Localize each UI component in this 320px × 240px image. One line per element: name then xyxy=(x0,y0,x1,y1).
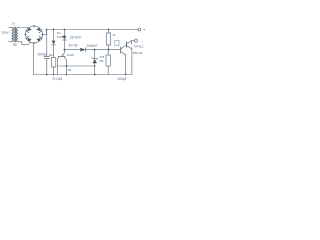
node bridge left xyxy=(25,34,27,36)
transistor Q3 collector lead xyxy=(64,57,66,75)
wire bridge right vertex to top rail xyxy=(43,30,47,35)
wire branch B to transistor Q3 xyxy=(64,50,66,53)
resistor R2 box xyxy=(106,33,110,45)
wire W1 mid horizontal xyxy=(65,49,121,51)
transformer core xyxy=(14,27,15,42)
svg-text:FB: FB xyxy=(99,59,103,63)
node zener top xyxy=(94,49,96,51)
node W2 zener junction xyxy=(94,65,96,67)
node bottom rail zener xyxy=(94,74,96,76)
resistor R1 lead xyxy=(53,45,55,58)
node bottom rail cap xyxy=(46,74,48,76)
capacitor C1 1000u lead top xyxy=(46,30,48,57)
svg-text:Tr: Tr xyxy=(12,22,16,26)
transistor Q1 emitter xyxy=(127,46,132,75)
wire bridge bottom to ground rail xyxy=(33,43,36,75)
bridge rectifier outline xyxy=(26,26,43,43)
wire secondary top to bridge xyxy=(18,27,29,29)
svg-text:BD139: BD139 xyxy=(133,51,143,55)
node W2 junction xyxy=(66,65,68,67)
wire primary top stub xyxy=(9,27,12,29)
node branch A top xyxy=(53,29,55,31)
transistor Q3 base bar xyxy=(58,55,65,57)
diode D7 bar xyxy=(85,48,87,52)
node bottom rail R1 xyxy=(53,74,55,76)
transistor Q2 base bar xyxy=(120,47,122,53)
svg-text:2k2: 2k2 xyxy=(49,53,54,57)
resistor R3 lead top xyxy=(107,50,109,55)
transistor Q3 base lead xyxy=(57,57,59,75)
svg-text:TIP41C: TIP41C xyxy=(134,44,145,48)
svg-text:230V: 230V xyxy=(2,31,10,35)
node branch B top xyxy=(64,29,66,31)
resistor R3 lead bottom xyxy=(107,66,109,75)
resistor R2 lead top xyxy=(108,30,110,34)
transistor Q3 emitter diagonal xyxy=(62,53,65,56)
transistor Q2 emitter xyxy=(121,52,126,75)
transistor Q1 base bar xyxy=(125,42,127,48)
node bridge top xyxy=(33,25,35,27)
node bottom rail Q2 xyxy=(125,74,127,76)
transistor Q3 emitter arrow xyxy=(62,54,64,56)
svg-text:1k: 1k xyxy=(112,33,116,37)
zener ZD1 lead top xyxy=(94,50,96,59)
svg-text:9V: 9V xyxy=(13,43,18,47)
diode D5 branch A lead xyxy=(53,30,55,41)
node cap junction top xyxy=(46,29,48,31)
bridge diode D3 SW xyxy=(26,36,32,42)
svg-text:7B: 7B xyxy=(68,68,72,72)
diode D6 bar xyxy=(63,39,67,41)
node R3 junction xyxy=(108,49,110,51)
terminal output minus xyxy=(134,39,137,42)
bridge diode D2 NE xyxy=(36,27,42,33)
svg-text:ZD 6V0: ZD 6V0 xyxy=(70,35,81,39)
diode D7 1N4007 triangle xyxy=(80,48,85,52)
resistor R2 lead bottom xyxy=(108,45,110,50)
node bridge bottom xyxy=(33,42,35,44)
wire secondary bottom to bridge xyxy=(18,42,30,45)
node zener feed junction xyxy=(64,49,66,51)
zener ZD1 triangle xyxy=(93,59,97,64)
bridge diode D4 SE xyxy=(36,36,42,42)
node bridge right xyxy=(42,34,44,36)
svg-text:1N4007: 1N4007 xyxy=(87,44,98,48)
wire bottom rail xyxy=(34,74,132,76)
capacitor C1 lead bottom xyxy=(46,59,48,75)
bridge diode D1 NW xyxy=(26,27,32,33)
zener ZD1 bar xyxy=(92,58,98,60)
small faint box xyxy=(115,40,119,45)
wire W2 horizontal xyxy=(57,65,94,67)
wire top rail xyxy=(47,29,138,31)
svg-text:ZD 7B: ZD 7B xyxy=(69,43,78,47)
svg-text:1000µ: 1000µ xyxy=(38,53,47,57)
transformer Tr secondary winding xyxy=(16,28,18,42)
wire minus terminal xyxy=(132,41,135,44)
diode D5 bar xyxy=(52,44,56,46)
svg-text:100µF: 100µF xyxy=(118,77,127,81)
transistor Q1 collector xyxy=(127,41,132,44)
wire primary bottom stub xyxy=(9,41,12,43)
resistor R1 box xyxy=(51,58,55,68)
terminal output plus xyxy=(138,28,141,31)
diode D6 1N4148 lead xyxy=(64,30,66,36)
capacitor C1 plates xyxy=(44,56,49,58)
transistor Q2 collector xyxy=(121,45,126,49)
svg-text:S 0,5A: S 0,5A xyxy=(53,77,64,81)
svg-text:4C26: 4C26 xyxy=(67,53,75,57)
diode D5 triangle xyxy=(52,41,56,45)
node R2 top rail junction xyxy=(108,29,110,31)
svg-text:-: - xyxy=(141,38,143,43)
node bottom rail Q3 xyxy=(66,74,68,76)
wire branch B down to node xyxy=(64,40,66,50)
resistor R1 lead bottom xyxy=(53,67,55,75)
transistor Q2 arrow xyxy=(124,54,126,55)
resistor R3 box xyxy=(106,55,110,66)
transistor Q1 arrow xyxy=(130,48,132,49)
svg-text:4148: 4148 xyxy=(57,35,64,39)
zener ZD1 lead bottom xyxy=(94,63,96,74)
transformer Tr primary winding xyxy=(11,28,13,42)
diode D6 triangle xyxy=(63,36,67,40)
svg-text:+: + xyxy=(143,27,146,32)
